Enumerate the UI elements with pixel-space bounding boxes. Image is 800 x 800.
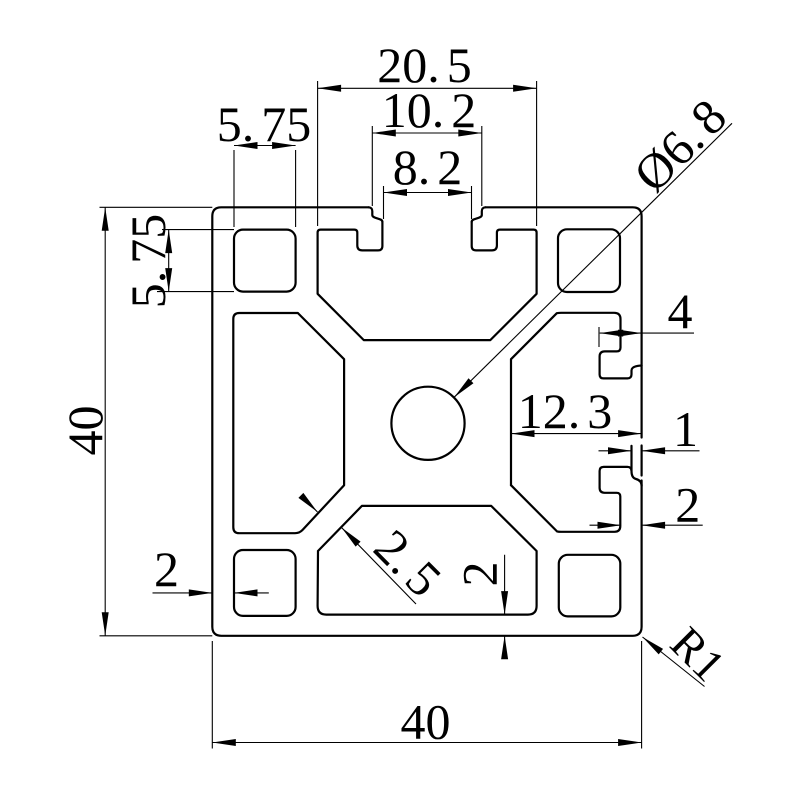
arrowheads dim 2 bottom-left <box>189 589 213 596</box>
8.2 dim <box>384 186 472 219</box>
outer profile boundary with top T-slot mouth and right slit <box>212 207 641 636</box>
arrowheads dim 12.3 <box>511 430 535 437</box>
arrowheads dim 2 bottom-middle <box>501 591 508 615</box>
arrowhead leader R1 <box>640 634 663 654</box>
bottom-right square cavity <box>559 555 621 617</box>
2 right dim <box>590 524 703 526</box>
arrowheads dim 5.75 vertical <box>165 230 172 254</box>
arrowheads dim 5.75 horizontal <box>234 142 258 149</box>
top-right square cavity <box>558 229 620 292</box>
R1 leader <box>643 637 705 687</box>
svg-text:8.2: 8.2 <box>393 139 463 195</box>
svg-text:2: 2 <box>675 477 700 533</box>
right side cavity: lower pentagon with hook <box>511 467 632 532</box>
T-slot mouth right wall with jog <box>472 207 486 222</box>
arrowheads dim 40 bottom <box>212 739 236 746</box>
svg-text:40: 40 <box>401 694 451 750</box>
20.5 dim <box>318 81 537 226</box>
svg-text:5.75: 5.75 <box>120 214 176 309</box>
dia 6.8 leader <box>454 123 732 397</box>
svg-text:10.2: 10.2 <box>382 82 477 138</box>
1 dim <box>599 450 700 452</box>
svg-text:2: 2 <box>452 562 508 587</box>
40 left dim <box>100 207 213 636</box>
bottom-left square cavity <box>234 550 296 616</box>
arrowheads dim 10.2 <box>372 130 396 137</box>
2.5 leader <box>303 498 416 605</box>
5.75 top dim <box>234 146 296 228</box>
svg-text:4: 4 <box>668 283 693 339</box>
dimension linework <box>100 81 733 749</box>
arrowheads dim 2.5 web <box>298 493 320 515</box>
4 dim <box>599 327 694 347</box>
arrowheads dim 1 <box>608 447 632 454</box>
svg-text:5.75: 5.75 <box>217 96 312 152</box>
arrowheads dim 40 left <box>102 207 109 231</box>
2 bottom-left dim <box>153 592 269 594</box>
center hole circle <box>391 387 464 460</box>
top-left square cavity <box>234 230 296 292</box>
bottom hex cavity <box>318 506 537 615</box>
top hex cavity with T-slot lips and wings <box>318 222 537 340</box>
right side cavity: upper pentagon with hook <box>511 313 642 485</box>
svg-text:2: 2 <box>154 541 179 597</box>
svg-text:40: 40 <box>57 406 113 456</box>
arrowheads dim 8.2 <box>384 189 408 196</box>
2 bottom-middle dim <box>504 555 506 657</box>
arrowheads dim 20.5 <box>318 85 342 92</box>
svg-text:1: 1 <box>673 401 698 457</box>
svg-text:12.3: 12.3 <box>518 383 613 439</box>
5.75 left dim <box>157 230 234 292</box>
10.2 dim <box>372 126 482 206</box>
arrowheads dim 4 <box>600 330 624 337</box>
T-slot mouth left wall with jog <box>369 207 383 222</box>
left middle octagon cavity <box>233 313 344 533</box>
40 bottom dim <box>212 641 641 749</box>
12.3 dim <box>511 433 642 435</box>
arrowheads dim 2 right <box>598 522 622 529</box>
arrowhead leader dia 6.8 <box>452 378 474 399</box>
right slit channel wall <box>632 446 642 486</box>
arrowheads <box>102 85 665 746</box>
dimension texts <box>57 37 737 750</box>
